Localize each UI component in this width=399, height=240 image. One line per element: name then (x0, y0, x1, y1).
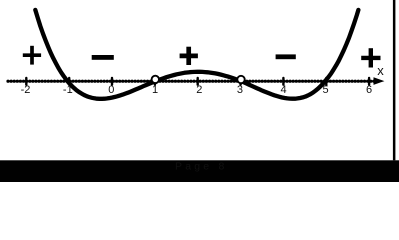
right border line (393, 0, 396, 160)
svg-text:1: 1 (152, 84, 158, 96)
svg-text:4: 4 (281, 84, 287, 96)
plus sign region 1 (23, 46, 41, 65)
tick x=0 (111, 78, 113, 85)
svg-text:3: 3 (237, 84, 243, 96)
plus sign region 3 (180, 47, 198, 65)
tick x=3 (239, 78, 241, 85)
tick x=2 (196, 78, 198, 85)
tick x=-2 (25, 78, 27, 85)
x-axis (dotted) (8, 80, 376, 83)
svg-text:Page 8: Page 8 (175, 161, 227, 173)
minus sign region 4 (276, 54, 296, 59)
curve: sign chart of f(x)=(x+1)(x-1)(x-3)(x-5) (35, 10, 358, 99)
axis arrowhead (374, 77, 385, 85)
tick x=6 (368, 78, 370, 85)
tick x=-1 (68, 78, 70, 85)
open circle (hole) at x=1 (152, 76, 159, 83)
svg-text:6: 6 (366, 84, 372, 96)
tick x=1 (154, 78, 156, 85)
tick x=4 (282, 78, 284, 85)
open circle (hole) at x=3 (237, 76, 244, 83)
minus sign region 2 (92, 55, 114, 60)
plus sign region 5 (361, 48, 380, 67)
bottom black band (0, 160, 399, 182)
svg-text:x: x (377, 63, 384, 78)
svg-text:-2: -2 (21, 84, 31, 96)
svg-text:0: 0 (108, 84, 114, 96)
svg-text:2: 2 (196, 84, 202, 96)
tick x=5 (325, 78, 327, 85)
